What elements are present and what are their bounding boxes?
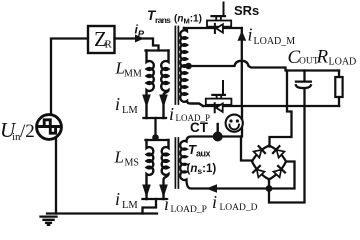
ground <box>41 217 57 226</box>
svg-text:rans: rans <box>155 15 171 25</box>
transformer Trans primary winding <box>161 51 168 119</box>
CT stub <box>216 124 218 132</box>
svg-text:i: i <box>115 94 120 114</box>
window bottom bar <box>144 117 167 119</box>
transistor SR2 gate <box>222 81 224 94</box>
bridge diode D2 (NE) <box>273 146 285 158</box>
arrow iLOAD_P upper <box>159 95 168 108</box>
transistor SR1 gate <box>223 3 225 16</box>
svg-text:MS: MS <box>125 158 139 169</box>
lower window bottom bar <box>143 198 167 200</box>
center tap dot <box>185 63 192 70</box>
svg-text:i: i <box>248 25 253 45</box>
svg-text:/2: /2 <box>20 121 35 142</box>
wire SR1 row <box>184 27 242 29</box>
transformer Taux secondary winding loop <box>180 137 294 189</box>
transformer Trans secondary winding <box>180 28 203 106</box>
stub to node <box>154 118 156 136</box>
arrow iLM upper <box>142 95 151 108</box>
resistor RLOAD <box>338 71 340 107</box>
bridge diode D1 (NW) <box>253 146 265 158</box>
svg-text:LM: LM <box>122 105 138 116</box>
transistor SR1 body <box>207 21 231 27</box>
svg-text:SRs: SRs <box>234 3 259 18</box>
svg-text:MM: MM <box>124 69 142 80</box>
svg-text:i: i <box>212 192 217 212</box>
window top bar <box>146 49 169 51</box>
wire COUT bottom to bridge <box>269 89 305 203</box>
svg-text:L: L <box>114 148 124 167</box>
SR1 body diode <box>214 24 216 33</box>
capacitor COUT <box>303 71 305 81</box>
svg-text:LM: LM <box>122 200 138 211</box>
bridge bottom junction dot <box>266 185 273 192</box>
svg-text:aux: aux <box>196 149 211 159</box>
SR2 body diode <box>214 103 216 112</box>
wire SR2 row / bottom output rail <box>203 105 339 107</box>
wire input top-left <box>51 39 115 115</box>
wire CT to bridge left <box>241 137 253 161</box>
bridge bottom stub <box>268 179 270 189</box>
arrow iLM lower <box>142 185 151 198</box>
wire output top rail with hop <box>189 61 340 71</box>
inductor LMS <box>147 140 154 199</box>
transistor SR2 body <box>206 99 232 105</box>
svg-text:LOAD_P: LOAD_P <box>171 205 207 215</box>
svg-text:P: P <box>138 29 145 40</box>
wire source to ground rail <box>55 138 57 214</box>
impedance ZR box <box>88 26 115 53</box>
wire zigzag bridge top to +rail <box>270 71 292 147</box>
diode bridge outline <box>252 146 286 180</box>
arrow iP <box>135 35 144 43</box>
arrow iLOAD_P lower <box>159 185 168 198</box>
arrow iLOAD_M <box>237 31 246 41</box>
lower window top bar <box>146 139 169 141</box>
core Trans <box>175 27 178 105</box>
bridge diode D4 (SE) <box>273 166 285 178</box>
inductor LMM <box>147 51 154 119</box>
svg-text:R: R <box>316 47 329 68</box>
core Taux <box>175 138 178 188</box>
jog to bottom rail <box>143 199 157 214</box>
svg-text:LOAD_M: LOAD_M <box>254 36 296 47</box>
voltage source U1 (Uin/2) <box>37 115 62 140</box>
transformer Taux primary winding <box>162 140 169 199</box>
wire ZR to transformer, ip <box>115 39 159 51</box>
node junction dot <box>152 134 159 141</box>
bridge diode D3 (SW) <box>253 166 265 178</box>
wire iLOAD_M vertical <box>241 28 243 106</box>
CT sensor dot <box>213 132 223 142</box>
svg-text:i: i <box>169 104 174 124</box>
arrow iLOAD_D <box>206 184 217 193</box>
svg-text:i: i <box>115 189 120 209</box>
svg-text:R: R <box>105 39 113 51</box>
svg-text:LOAD_D: LOAD_D <box>220 203 258 213</box>
svg-text:(ns:1): (ns:1) <box>187 163 217 176</box>
wire CT branch vertical <box>241 106 243 137</box>
svg-text:LOAD: LOAD <box>329 57 357 68</box>
svg-text:i: i <box>164 194 169 214</box>
wire bottom rail <box>47 212 157 214</box>
svg-text:CT: CT <box>190 120 209 135</box>
smiley annotation <box>226 115 243 132</box>
